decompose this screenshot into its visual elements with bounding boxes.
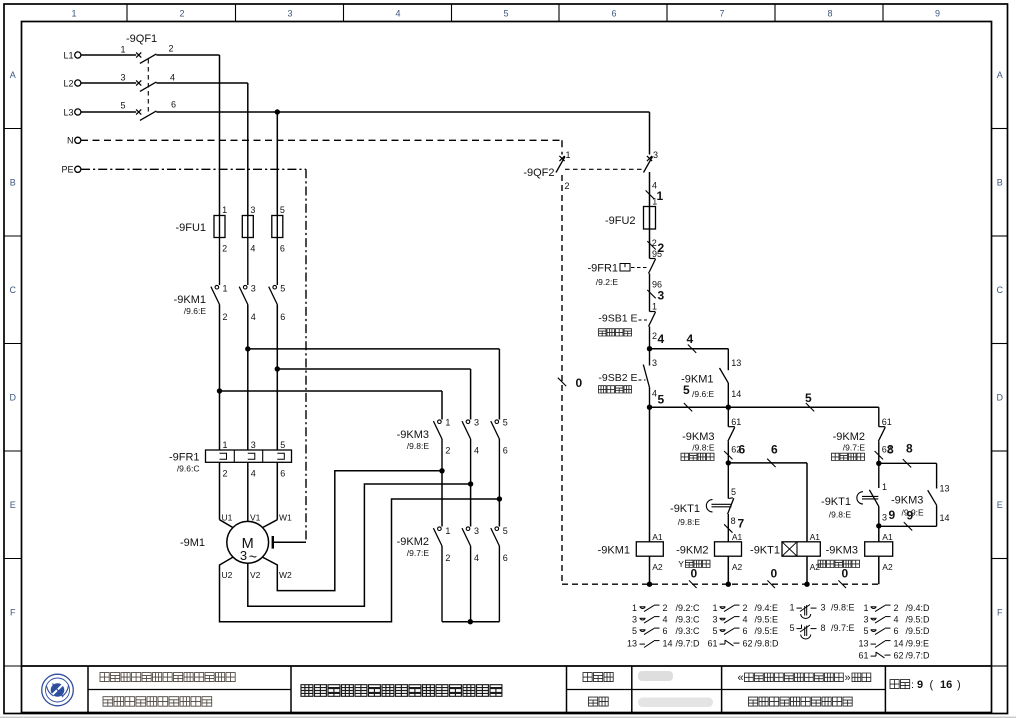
svg-text:3: 3 — [240, 548, 247, 563]
svg-text:-9FU1: -9FU1 — [175, 222, 206, 234]
svg-text:A1: A1 — [810, 532, 821, 542]
cross reference table -9KM3 contacts — [858, 603, 930, 661]
svg-text:-9M1: -9M1 — [180, 537, 205, 549]
svg-text:14: 14 — [731, 389, 741, 399]
svg-text:«: « — [738, 672, 744, 684]
svg-text:~: ~ — [249, 549, 257, 565]
svg-text:61: 61 — [882, 417, 892, 427]
-9KM1 coil pins A1 A2 — [652, 532, 663, 572]
net 9 labels — [889, 508, 914, 523]
label stop button 停止按钮 — [599, 329, 632, 336]
-9KM2 coil pins A1 A2 — [732, 532, 743, 572]
fuse -9FU1 (3 poles) — [214, 216, 283, 286]
svg-text:5: 5 — [658, 393, 665, 407]
label -9KM3 interlock — [682, 431, 715, 453]
svg-text:7: 7 — [738, 517, 745, 531]
net 1 — [646, 189, 664, 203]
label start button 启动按钮 — [599, 386, 632, 393]
node L2 terminal — [63, 78, 80, 88]
junction N KT1 — [804, 582, 809, 587]
wire L1 rail — [81, 55, 220, 216]
svg-text:1: 1 — [652, 302, 657, 312]
svg-text:1: 1 — [445, 418, 450, 428]
svg-text:1: 1 — [652, 197, 657, 207]
junction N KM1 — [647, 582, 652, 587]
net 6 labels — [724, 443, 778, 468]
title block text 苏州健雄职业技术学院 — [103, 697, 212, 707]
svg-text:/9.2:E: /9.2:E — [596, 277, 619, 287]
svg-text:5: 5 — [712, 626, 717, 636]
svg-text:2: 2 — [663, 603, 668, 613]
contactor -9KM2 interlock contact 61-62 — [878, 407, 885, 463]
svg-text:-9KM1: -9KM1 — [598, 545, 630, 557]
svg-text:/9.7:E: /9.7:E — [407, 548, 430, 558]
svg-text:1: 1 — [863, 603, 868, 613]
svg-text:3: 3 — [653, 150, 658, 160]
page label 页次 — [890, 680, 910, 689]
svg-text:4: 4 — [663, 615, 668, 625]
svg-text:V1: V1 — [250, 513, 261, 523]
svg-text:/9.8:E: /9.8:E — [831, 603, 855, 613]
svg-text:2: 2 — [179, 9, 184, 19]
node L3 terminal — [63, 107, 80, 117]
-9QF2 pin numbers — [565, 150, 659, 191]
svg-text:6: 6 — [743, 626, 748, 636]
svg-text:1: 1 — [223, 284, 228, 294]
-9KT1 pins 5 8 — [731, 487, 736, 526]
svg-text:4: 4 — [474, 446, 479, 456]
svg-text:2: 2 — [223, 469, 228, 479]
svg-text:9: 9 — [889, 508, 896, 522]
label interlock 互锁触点 (KM3) — [681, 453, 714, 460]
junction node 5 — [647, 405, 652, 410]
svg-text:/9.6:E: /9.6:E — [184, 306, 207, 316]
title block text 电气安装规划与实施课程图纸 — [100, 673, 235, 682]
svg-text:/9.5:D: /9.5:D — [906, 626, 931, 636]
svg-text:61: 61 — [858, 651, 868, 661]
svg-text:W1: W1 — [279, 513, 292, 523]
svg-text:3: 3 — [882, 513, 887, 523]
svg-text:6: 6 — [503, 553, 508, 563]
svg-text:/9.4:D: /9.4:D — [906, 603, 931, 613]
svg-text:A1: A1 — [732, 532, 743, 542]
wire KM2 coil to N rail — [727, 556, 729, 584]
svg-text:62: 62 — [894, 651, 904, 661]
svg-text:/9.7:D: /9.7:D — [906, 651, 931, 661]
svg-text:/9.8:E: /9.8:E — [692, 443, 715, 453]
svg-text:1: 1 — [789, 603, 794, 613]
svg-text:/9.5:E: /9.5:E — [755, 615, 779, 625]
wire N rail (dashed) — [81, 140, 562, 154]
wire KM3 coil to N rail — [878, 556, 880, 584]
svg-text:2: 2 — [445, 553, 450, 563]
svg-text:6: 6 — [611, 9, 616, 19]
svg-text:1: 1 — [882, 482, 887, 492]
svg-text:5: 5 — [280, 205, 285, 215]
junction node 4 — [647, 346, 652, 351]
node L1 terminal — [63, 50, 80, 60]
junction tap L3 phase — [275, 366, 280, 371]
svg-text:3: 3 — [251, 440, 256, 450]
label delta connection 三角形连接 — [818, 560, 860, 567]
motor PE terminal — [273, 536, 306, 549]
junction node 9 — [876, 523, 881, 528]
svg-text:»: » — [845, 672, 851, 684]
svg-text:PE: PE — [61, 165, 73, 175]
svg-text:4: 4 — [652, 389, 657, 399]
wire U2 return — [220, 499, 500, 622]
svg-text:-9KM3: -9KM3 — [682, 431, 714, 443]
svg-text:6: 6 — [280, 244, 285, 254]
svg-text:5: 5 — [683, 383, 690, 397]
svg-text:1: 1 — [632, 603, 637, 613]
svg-text:1: 1 — [121, 45, 126, 55]
-9QF1 pin numbers — [121, 44, 177, 111]
label -9KT1 left — [670, 503, 700, 527]
svg-text:E: E — [10, 500, 16, 510]
junction tap L1 phase — [217, 388, 222, 393]
svg-text:N: N — [67, 136, 74, 146]
svg-text:-9KM3: -9KM3 — [397, 429, 429, 441]
svg-text:3: 3 — [287, 9, 292, 19]
-9KM3 pin numbers — [445, 418, 507, 456]
circuit breaker -9QF1 — [136, 52, 156, 120]
svg-text:U1: U1 — [222, 513, 233, 523]
contactor -9KM3 interlock contact 61-62 — [728, 407, 735, 463]
svg-text:62: 62 — [743, 639, 753, 649]
svg-text:5: 5 — [280, 284, 285, 294]
svg-text:5: 5 — [503, 9, 508, 19]
svg-text:2: 2 — [445, 446, 450, 456]
wire tap to -9KM3 pole 3 — [248, 349, 500, 420]
svg-text:/9.9:E: /9.9:E — [902, 508, 925, 518]
svg-text:95: 95 — [652, 249, 662, 259]
svg-text:/9.2:C: /9.2:C — [676, 603, 701, 613]
svg-text:2: 2 — [222, 244, 227, 254]
svg-text:-9KM2: -9KM2 — [833, 431, 865, 443]
wire N return rail (dashed) — [562, 583, 879, 585]
label interlock 互锁触点 (KM2) — [832, 453, 865, 460]
svg-text:0: 0 — [691, 567, 698, 581]
wire KM3 outputs to KM2 inputs — [442, 471, 499, 527]
svg-text:-9KM1: -9KM1 — [174, 294, 206, 306]
svg-text:D: D — [997, 393, 1004, 403]
svg-text:4: 4 — [251, 469, 256, 479]
wire control phase from QF2 — [649, 172, 651, 259]
wire FR1 to motor U1 V1 W1 — [220, 462, 278, 527]
junction N KM2 — [726, 582, 731, 587]
wire node 5 rail — [650, 406, 879, 408]
svg-text:/9.8:E: /9.8:E — [829, 510, 852, 520]
svg-text:14: 14 — [940, 513, 950, 523]
time relay -9KT1 delayed contact 1-3 — [857, 463, 879, 526]
svg-text:5: 5 — [731, 487, 736, 497]
junction KM1 aux to node5 — [726, 405, 731, 410]
svg-text:4: 4 — [251, 312, 256, 322]
svg-text:/9.8:E: /9.8:E — [678, 517, 701, 527]
svg-text:W2: W2 — [279, 570, 292, 580]
svg-text:6: 6 — [739, 443, 746, 457]
label -9KM2 main — [397, 536, 430, 558]
svg-text:6: 6 — [280, 469, 285, 479]
svg-text:A2: A2 — [652, 562, 663, 572]
svg-text:5: 5 — [789, 623, 794, 633]
svg-text:/9.5:D: /9.5:D — [906, 615, 931, 625]
svg-text:4: 4 — [250, 244, 255, 254]
svg-text:3: 3 — [652, 358, 657, 368]
-9KM3 pins 61 62 — [731, 417, 741, 455]
svg-text:/9.9:E: /9.9:E — [906, 639, 930, 649]
svg-text:13: 13 — [940, 484, 950, 494]
svg-text:L3: L3 — [63, 107, 73, 117]
net 8 labels — [875, 442, 913, 468]
svg-text:A: A — [997, 70, 1003, 80]
svg-text:4: 4 — [395, 9, 400, 19]
svg-text:/9.7:E: /9.7:E — [831, 623, 855, 633]
svg-text:1: 1 — [71, 9, 76, 19]
svg-text:-9FU2: -9FU2 — [605, 215, 636, 227]
svg-text:(: ( — [930, 679, 934, 691]
svg-text:/9.3:C: /9.3:C — [676, 615, 701, 625]
svg-text:1: 1 — [445, 526, 450, 536]
svg-text:5: 5 — [503, 418, 508, 428]
label -9KM1 aux — [681, 374, 714, 400]
major name 机电一体化技术专业 — [749, 697, 853, 706]
wire star point bar — [442, 621, 499, 623]
svg-text:B: B — [10, 178, 16, 188]
svg-text:-9KT1: -9KT1 — [670, 503, 700, 515]
svg-text:2: 2 — [565, 181, 570, 191]
svg-text:/9.4:E: /9.4:E — [755, 603, 779, 613]
svg-text:6: 6 — [894, 626, 899, 636]
pushbutton -9SB1 NC (stop) — [639, 312, 656, 349]
net 7 — [724, 517, 744, 533]
junction U2 to KM3 pole3 — [497, 496, 502, 501]
net 0 labels on N rail — [689, 567, 849, 589]
svg-text:-9KM2: -9KM2 — [397, 536, 429, 548]
svg-text:4: 4 — [658, 332, 665, 346]
svg-text:F: F — [997, 608, 1003, 618]
time relay coil -9KT1 — [782, 542, 820, 556]
net 2 — [647, 241, 664, 255]
contactor coil -9KM3 — [865, 542, 893, 556]
svg-text:5: 5 — [121, 101, 126, 111]
wire L2 rail — [81, 83, 248, 216]
svg-text:2: 2 — [743, 603, 748, 613]
wire PE rail (dash-dot) — [81, 169, 306, 542]
wire N control (dashed vertical) — [561, 175, 563, 584]
svg-text:7: 7 — [719, 9, 724, 19]
label -9KM2 interlock — [833, 431, 866, 453]
svg-text:U2: U2 — [222, 570, 233, 580]
svg-text:1: 1 — [712, 603, 717, 613]
svg-text:Y: Y — [678, 559, 684, 569]
svg-text:A2: A2 — [732, 562, 743, 572]
-9SB1 pins 1 2 — [652, 302, 657, 342]
svg-text:4: 4 — [474, 553, 479, 563]
junction V2 to KM3 pole2 — [468, 481, 473, 486]
svg-text:4: 4 — [894, 615, 899, 625]
wire tap to -9KM3 pole 1 — [220, 391, 443, 420]
svg-text:8: 8 — [827, 9, 832, 19]
junction star point — [468, 619, 473, 624]
wire L3 rail — [81, 112, 650, 216]
svg-text:C: C — [997, 285, 1004, 295]
svg-text:3: 3 — [821, 603, 826, 613]
svg-text:-9KT1: -9KT1 — [750, 545, 780, 557]
-9KM2 pins 61 62 — [882, 417, 892, 455]
svg-text:13: 13 — [731, 358, 741, 368]
svg-text:5: 5 — [280, 440, 285, 450]
school logo seal — [42, 674, 74, 706]
wire node6 to KT1 coil branch — [728, 463, 807, 542]
wire V2 return — [248, 484, 471, 606]
svg-text:/9.6:C: /9.6:C — [177, 464, 200, 474]
wire node5 to KM1 coil — [649, 407, 651, 542]
svg-text:/9.7:E: /9.7:E — [843, 443, 866, 453]
thermal overload relay -9FR1 main element — [206, 450, 292, 462]
-9KT1 coil pins A1 A2 — [810, 532, 821, 572]
svg-text:-9QF2: -9QF2 — [523, 167, 554, 179]
svg-text:-9QF1: -9QF1 — [126, 33, 157, 45]
svg-text:2: 2 — [223, 312, 228, 322]
svg-text:/9.8:E: /9.8:E — [407, 441, 430, 451]
net 5 labels — [658, 383, 815, 411]
svg-text:5: 5 — [503, 526, 508, 536]
net 3 — [647, 289, 664, 303]
svg-text:61: 61 — [731, 417, 741, 427]
svg-text:L2: L2 — [63, 78, 73, 88]
svg-text:-9KT1: -9KT1 — [821, 496, 851, 508]
svg-text:16: 16 — [940, 679, 952, 691]
svg-text:0: 0 — [771, 567, 778, 581]
label -9KM3 main — [397, 429, 430, 451]
label -9FR1 control — [587, 263, 618, 288]
svg-text:3: 3 — [712, 615, 717, 625]
wire KM1 coil to N rail — [649, 556, 651, 584]
svg-text:4: 4 — [743, 615, 748, 625]
svg-text:9: 9 — [917, 679, 923, 691]
-9KT1 pins 1 3 — [882, 482, 887, 523]
thermal relay -9FR1 NC contact 95-96 — [620, 259, 656, 312]
svg-text:F: F — [10, 608, 16, 618]
svg-text:3: 3 — [658, 289, 665, 303]
svg-text:8: 8 — [887, 443, 894, 457]
svg-text:E: E — [997, 500, 1003, 510]
svg-text:2: 2 — [894, 603, 899, 613]
junction W2 to KM3 pole1 — [439, 468, 444, 473]
title block label 学号 — [589, 697, 609, 706]
svg-text:C: C — [10, 285, 17, 295]
junction L3 to fuse branch — [275, 109, 280, 114]
svg-text:4: 4 — [687, 332, 694, 346]
node PE terminal — [61, 165, 80, 175]
svg-text:5: 5 — [863, 626, 868, 636]
redacted drafter name — [638, 671, 673, 681]
svg-text:4: 4 — [170, 73, 175, 83]
drawing title 时间继电器控制电动机星三角启动 — [301, 685, 502, 697]
junction tap L2 phase — [245, 346, 250, 351]
fuse -9FU2 — [644, 207, 656, 230]
-9KM1 pin numbers — [223, 284, 286, 323]
svg-text:8: 8 — [821, 623, 826, 633]
cross reference table -9KM2 contacts — [707, 603, 779, 649]
svg-text:/9.6:E: /9.6:E — [692, 389, 715, 399]
contactor -9KM2 main contacts (star) — [433, 527, 499, 622]
contactor -9KM1 auxiliary contact 13-14 — [720, 349, 729, 408]
svg-text:A: A — [10, 70, 16, 80]
label -9KM1 main — [174, 294, 207, 316]
redacted student id — [638, 698, 713, 708]
svg-text:A1: A1 — [652, 532, 663, 542]
contactor coil -9KM2 — [715, 542, 742, 556]
contactor -9KM3 auxiliary contact 13-14 — [879, 463, 937, 526]
pushbutton -9SB2 NO (start) — [639, 349, 650, 408]
svg-text:3: 3 — [632, 615, 637, 625]
svg-text:6: 6 — [280, 312, 285, 322]
svg-text:13: 13 — [858, 639, 868, 649]
net 9 tick — [904, 522, 912, 530]
svg-text::: : — [911, 679, 914, 691]
-9KM3 coil pins A1 A2 — [882, 532, 893, 572]
svg-text:3: 3 — [474, 526, 479, 536]
svg-text:D: D — [10, 393, 17, 403]
svg-text:0: 0 — [576, 376, 583, 390]
svg-text:2: 2 — [652, 331, 657, 341]
svg-text:/9.3:C: /9.3:C — [676, 626, 701, 636]
svg-text:A1: A1 — [882, 532, 893, 542]
svg-text:1: 1 — [222, 205, 227, 215]
svg-text:3: 3 — [251, 284, 256, 294]
svg-text:): ) — [957, 679, 961, 691]
svg-text:-9KM2: -9KM2 — [676, 545, 708, 557]
circuit breaker -9QF2 pole 3-4 (L) — [644, 156, 653, 173]
node N terminal — [67, 136, 81, 146]
-9KM3 pins 13 14 — [940, 484, 950, 524]
svg-text:1: 1 — [223, 440, 228, 450]
svg-text:-9KM3: -9KM3 — [891, 495, 923, 507]
wire KT1 coil to N rail — [806, 556, 808, 584]
motor terminal labels — [222, 513, 293, 581]
wire node4 to KM1 aux — [650, 348, 729, 350]
svg-text:3: 3 — [474, 418, 479, 428]
svg-text:9: 9 — [935, 9, 940, 19]
svg-text:6: 6 — [663, 626, 668, 636]
svg-text:3: 3 — [250, 205, 255, 215]
label -9KM3 aux — [891, 495, 924, 518]
-9FR1 95 96 pins — [652, 249, 662, 290]
svg-text:V2: V2 — [250, 570, 261, 580]
svg-text:14: 14 — [894, 639, 904, 649]
title block grid — [22, 666, 992, 713]
svg-text:2: 2 — [169, 44, 174, 54]
junction node 6 — [726, 460, 731, 465]
svg-text:6: 6 — [771, 443, 778, 457]
svg-text:/9.5:E: /9.5:E — [755, 626, 779, 636]
title block label 制图人 — [583, 673, 613, 682]
svg-text:8: 8 — [731, 516, 736, 526]
label Y connection Y型连接 (partial text) — [686, 560, 711, 567]
junction node 8 — [876, 461, 881, 466]
svg-text:L1: L1 — [63, 50, 73, 60]
svg-text:1: 1 — [657, 189, 664, 203]
svg-text:-9KM3: -9KM3 — [826, 545, 858, 557]
wire tap to -9KM3 pole 2 — [277, 369, 470, 420]
label -9KT1 right — [821, 496, 851, 520]
contactor coil -9KM1 — [636, 542, 663, 556]
svg-text:-9FR1: -9FR1 — [587, 263, 618, 275]
time relay -9KT1 delayed contact 5-8 — [706, 463, 733, 542]
